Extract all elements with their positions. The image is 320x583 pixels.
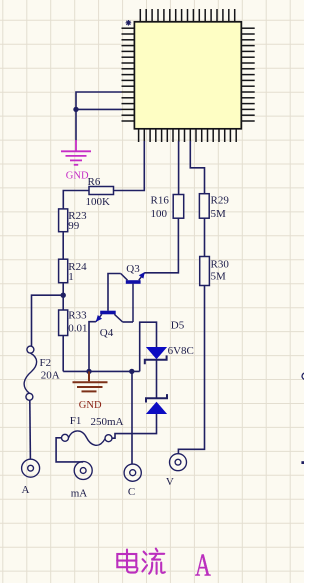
wire: IC left pin to node A (lower) bbox=[76, 108, 122, 110]
transistor Q3 bbox=[121, 263, 145, 322]
svg-text:1: 1 bbox=[68, 271, 74, 283]
svg-text:R33: R33 bbox=[68, 310, 87, 322]
wire: D5 bottom to fuse F1 bbox=[112, 414, 157, 438]
wire: R33 to ground rail bbox=[62, 336, 64, 372]
zener diode D5 (bottom) bbox=[146, 394, 167, 414]
wire: Q3 emitter to R16 bbox=[145, 218, 179, 273]
svg-text:Q3: Q3 bbox=[126, 263, 140, 275]
svg-text:6V8C: 6V8C bbox=[168, 345, 194, 357]
fuse F2 bbox=[24, 346, 36, 400]
wire: R24 to R33 bbox=[62, 283, 64, 310]
zener diode D5 (top) bbox=[145, 347, 167, 364]
wire: R6 right to IC bottom pin bbox=[114, 141, 145, 191]
svg-text:F2: F2 bbox=[40, 357, 52, 369]
ground rail wire bbox=[63, 370, 140, 372]
IC U1 bottom pins bbox=[139, 129, 237, 142]
wire: D5 anode loop to ground rail bbox=[140, 322, 157, 371]
svg-text:Q4: Q4 bbox=[100, 327, 114, 339]
wire: R23 to R24 bbox=[62, 232, 64, 260]
svg-text:20A: 20A bbox=[41, 369, 60, 381]
transistor Q4 bbox=[96, 311, 123, 340]
svg-text:GND: GND bbox=[79, 400, 102, 411]
svg-text:R16: R16 bbox=[151, 195, 170, 207]
IC U1 left pins bbox=[122, 28, 135, 121]
svg-text:99: 99 bbox=[68, 220, 80, 232]
svg-text:F1: F1 bbox=[70, 415, 82, 427]
ground GND (power, dark red) bbox=[73, 371, 108, 391]
title: 流 (drawn strokes) bbox=[142, 549, 164, 574]
title: 电 (drawn strokes) bbox=[117, 550, 137, 573]
terminal V bbox=[170, 454, 187, 471]
wire: Q3 collector to Q4 base bbox=[108, 274, 121, 311]
wire: R6 left to rail bbox=[63, 191, 89, 209]
edge fragment: partial circle at right border bbox=[302, 373, 308, 379]
wire: F2 to terminal A bbox=[29, 400, 32, 459]
svg-text:A: A bbox=[195, 548, 211, 583]
wire: IC left pin to node A (upper) bbox=[76, 92, 122, 141]
wire: F1 to terminal mA bbox=[56, 438, 83, 462]
wire: R29 to R30 bbox=[204, 218, 206, 256]
wire: Q3 base to Q4 collector bbox=[123, 321, 133, 323]
IC U1 (QFP body) bbox=[134, 22, 241, 129]
resistor R23 bbox=[59, 209, 68, 232]
svg-text:250mA: 250mA bbox=[91, 416, 124, 428]
resistor R33 bbox=[59, 310, 68, 336]
wire: Q4 emitter to ground rail bbox=[89, 322, 96, 372]
terminal mA bbox=[74, 462, 92, 480]
svg-text:R6: R6 bbox=[88, 176, 101, 188]
wire: node B to fuse F2 bbox=[32, 295, 64, 346]
fuse F1 bbox=[62, 431, 113, 445]
wire: D5 middle link bbox=[156, 360, 158, 398]
svg-text:100K: 100K bbox=[86, 196, 111, 208]
resistor R24 bbox=[59, 259, 68, 283]
node A junction dot bbox=[73, 107, 78, 112]
svg-text:A: A bbox=[22, 484, 30, 496]
IC U1 pin-1 asterisk mark bbox=[126, 20, 132, 26]
svg-text:C: C bbox=[128, 486, 135, 498]
wire: node D to terminal C bbox=[131, 371, 133, 464]
node D junction dot (to terminal C) bbox=[129, 369, 134, 374]
wire: R30 to terminal V bbox=[178, 286, 204, 454]
resistor R30 bbox=[200, 257, 210, 286]
IC U1 right pins bbox=[241, 28, 254, 121]
IC U1 top pins bbox=[140, 9, 234, 22]
svg-text:mA: mA bbox=[71, 487, 88, 499]
resistor R29 bbox=[199, 194, 209, 219]
svg-text:5M: 5M bbox=[211, 208, 227, 220]
node C junction dot (GND stem) bbox=[86, 369, 91, 374]
resistor R16 bbox=[173, 195, 184, 219]
svg-text:0.01: 0.01 bbox=[68, 323, 87, 335]
terminal A bbox=[22, 459, 40, 477]
svg-text:D5: D5 bbox=[171, 319, 185, 331]
svg-text:5M: 5M bbox=[211, 270, 227, 282]
svg-text:GND: GND bbox=[66, 170, 89, 181]
svg-text:R29: R29 bbox=[211, 195, 230, 207]
terminal C bbox=[124, 464, 141, 481]
svg-text:100: 100 bbox=[151, 208, 168, 220]
wire: IC pin to R16 bbox=[178, 141, 180, 195]
edge fragment: small mark at right border bbox=[301, 461, 304, 464]
svg-text:V: V bbox=[166, 476, 174, 488]
ground GND (analog, magenta) bbox=[61, 140, 91, 165]
resistor R6 bbox=[89, 187, 114, 195]
wire: IC pin to R29 bbox=[190, 141, 204, 194]
node B junction dot bbox=[61, 293, 66, 298]
svg-text:R30: R30 bbox=[211, 259, 230, 271]
